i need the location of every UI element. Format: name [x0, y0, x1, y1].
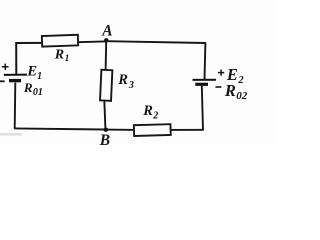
wire right vertical upper [204, 42, 207, 79]
battery E2 short plate (-) [195, 83, 208, 86]
wire R1 to node A [78, 40, 106, 43]
battery E1 long plate (+) [4, 74, 27, 76]
wire bottom-right horizontal [171, 129, 204, 131]
polarity - of E1 [0, 80, 5, 82]
wire top-left horizontal [15, 42, 43, 44]
svg-text:A: A [101, 22, 112, 39]
svg-text:R01: R01 [23, 80, 43, 98]
polarity - of E2 [216, 86, 222, 88]
wire node A to top-right corner [107, 41, 206, 43]
wire right vertical lower [202, 86, 203, 130]
svg-text:R02: R02 [224, 81, 248, 102]
wire node B to R2 [104, 129, 134, 131]
resistor R3 [100, 70, 112, 101]
svg-text:R1: R1 [54, 47, 70, 64]
resistor R1 [42, 35, 78, 47]
wire bottom-left horizontal [14, 128, 104, 129]
wire left vertical upper [15, 42, 17, 74]
battery E1 short plate (-) [9, 79, 21, 82]
wire R3 down to node B [104, 100, 105, 128]
node B [104, 128, 108, 132]
battery E2 long plate (+) [193, 79, 217, 81]
node A [104, 38, 109, 43]
wire node A down to R3 [105, 42, 108, 71]
polarity + of E2 [218, 70, 224, 76]
svg-text:R2: R2 [142, 103, 158, 121]
polarity + of E1 [2, 64, 9, 70]
svg-text:B: B [99, 132, 110, 146]
resistor R2 [134, 124, 171, 136]
svg-text:R3: R3 [117, 72, 134, 91]
wire left vertical lower [14, 83, 17, 129]
